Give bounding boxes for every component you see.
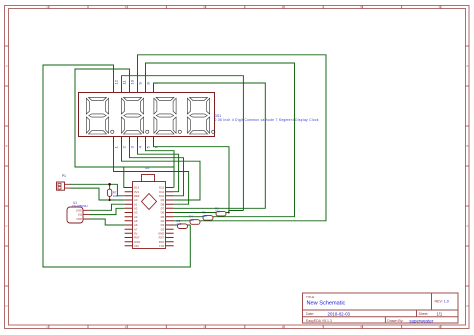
IC left pin labels: [134, 186, 140, 248]
svg-text:Drawn By:: Drawn By:: [387, 319, 403, 323]
digit 4: [187, 97, 215, 134]
svg-text:New Schematic: New Schematic: [307, 301, 346, 307]
diamond logo: [142, 194, 157, 210]
wire U1 VDD to A6: [89, 219, 125, 225]
svg-text:B: B: [466, 144, 468, 148]
svg-text:220: 220: [177, 222, 182, 226]
frame ticks top: [49, 6, 441, 9]
junction dot R6 right: [228, 212, 230, 214]
junction dot R7 top: [108, 183, 111, 186]
display bottom pin numbers: [113, 145, 158, 148]
svg-text:220: 220: [215, 210, 220, 214]
wire display pin7 to U2 D7: [154, 83, 266, 208]
wire node A0 row under R7 bottom: [99, 199, 125, 201]
svg-text:VDD: VDD: [76, 217, 82, 221]
wire R6 right lead stub: [228, 211, 230, 213]
svg-text:0.36 Inch 4 Digit Common catho: 0.36 Inch 4 Digit Common cathode 7 Segme…: [215, 118, 319, 122]
resistor R4: [174, 220, 200, 225]
wire display pin5 to U2 D12: [146, 146, 175, 167]
frame ticks right: [466, 46, 470, 286]
svg-text:TX0: TX0: [159, 244, 165, 248]
display top pins: [114, 84, 154, 92]
title block: [303, 293, 459, 323]
svg-text:superwester: superwester: [409, 318, 433, 323]
svg-text:Date:: Date:: [306, 312, 314, 316]
svg-text:B: B: [5, 144, 7, 148]
svg-text:REV: 1.0: REV: 1.0: [435, 300, 449, 304]
wire display pin9 outer right loop to R4 right lead: [138, 55, 327, 221]
svg-text:A: A: [466, 64, 468, 68]
usb connector: [142, 175, 155, 182]
wire display pin6 to R6 jog: [154, 146, 244, 211]
digit 1: [86, 97, 114, 134]
wire display pin10 left loop and arch to U2 D12: [75, 69, 174, 188]
U1 DS18B20 body: [67, 207, 89, 223]
junction dot R7 bottom: [109, 199, 111, 201]
IC U2 body: [133, 175, 166, 249]
resistor R6: [174, 211, 229, 216]
svg-text:2018-02-03: 2018-02-03: [328, 311, 351, 316]
wire U1 GND to A1: [89, 204, 125, 210]
resistor R7 vertical: [107, 184, 111, 200]
svg-text:EasyEDA V5.1.3: EasyEDA V5.1.3: [306, 319, 332, 323]
wire U1 DQ to A2: [89, 208, 125, 214]
svg-text:12: 12: [113, 79, 118, 84]
display top pin numbers: [113, 79, 158, 84]
svg-text:DS18B20U: DS18B20U: [72, 204, 87, 208]
wire display pin11 to R6 jog: [122, 76, 244, 211]
IC right pins: [166, 188, 174, 246]
svg-text:10: 10: [129, 79, 134, 84]
resistor R3: [174, 224, 191, 229]
IC right pin labels: [158, 186, 165, 248]
digit 2: [121, 97, 148, 134]
wire P1 pin1 to R7 top and U2 REF: [71, 184, 125, 196]
wire display pin12 outer left loop to R3 right lead: [43, 65, 190, 267]
wire display pin3 to U2 D10: [130, 146, 184, 196]
frame ticks left: [5, 46, 9, 286]
wire P1 pin2 to U2 A0: [71, 188, 125, 200]
svg-text:1/1: 1/1: [436, 311, 442, 316]
svg-text:P1: P1: [62, 174, 66, 178]
svg-text:Sheet:: Sheet:: [419, 312, 429, 316]
frame ticks bottom: [49, 325, 441, 329]
wire display pin1 to U2 D8: [114, 146, 189, 204]
svg-text:TITLE:: TITLE:: [306, 295, 315, 299]
svg-text:A: A: [5, 64, 7, 68]
IC left pins: [125, 188, 133, 246]
wire display pin4 to U2 D11: [138, 146, 179, 192]
svg-text:VIN: VIN: [134, 244, 139, 248]
wire display pin2 to U2 D9: [122, 146, 201, 200]
resistor R5: [174, 216, 213, 221]
connector P1: [57, 182, 72, 190]
svg-text:220: 220: [189, 218, 194, 222]
wire display pin8 right loop to R5 right lead: [146, 63, 295, 217]
display bottom pins: [114, 137, 154, 146]
svg-text:220: 220: [202, 214, 207, 218]
digit 3: [154, 97, 182, 134]
display DS1 body: [79, 93, 215, 137]
wire U2 D13 branch to arch: [124, 167, 125, 188]
